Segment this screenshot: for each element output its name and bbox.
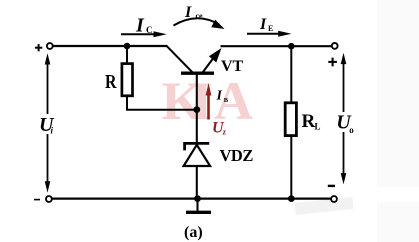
svg-text:I: I [135,15,145,37]
wire R top lead [126,46,128,64]
current arrow IC [121,33,155,35]
svg-text:E: E [268,24,273,33]
wire RL top lead [290,46,292,103]
terminal - input (bottom-left) [46,196,52,202]
current arrow ICE (curved) [174,18,220,25]
svg-text:R: R [105,72,117,93]
node junction top-right (wire to RL) [288,43,295,50]
svg-text:o: o [349,125,354,135]
wire top-right segment [221,45,333,47]
terminal - output (bottom-right) [331,196,337,202]
svg-text:B: B [224,97,229,104]
svg-text:I: I [259,16,267,33]
current arrow IB (red) [207,94,210,120]
svg-text:I: I [216,89,223,104]
svg-text:(a): (a) [184,224,203,241]
voltage arrow Uo [343,60,345,178]
transistor VT [167,46,244,75]
collector lead [167,46,192,72]
svg-text:C: C [146,25,153,35]
current arrow IE [247,33,280,35]
resistor R [122,64,133,96]
ground [196,199,198,211]
node junction bottom (zener/ground) [194,195,201,202]
wire zener to bottom [196,166,198,199]
cathode bar with bent tip [185,143,210,150]
svg-text:VDZ: VDZ [220,146,254,165]
svg-text:ce: ce [196,12,204,21]
wire base vertical [196,74,198,142]
svg-text:L: L [315,122,321,132]
voltage arrow Ui [47,60,49,186]
terminal + input (top-left) [47,43,53,49]
wire bottom [52,198,331,200]
emitter lead with arrow [203,55,216,73]
zener diode VDZ [184,143,254,166]
svg-text:z: z [223,128,227,137]
node junction base [193,106,200,113]
node junction top-left (wire to R) [124,43,131,50]
wire R bottom lead to base node [127,96,194,110]
svg-text:VT: VT [221,58,244,75]
node junction bottom-right (RL) [288,195,295,202]
resistor RL [285,103,296,136]
base bar [181,71,214,74]
wire top-left segment [53,45,168,47]
anode triangle [184,145,211,166]
svg-text:R: R [302,111,316,132]
terminal + output (top-right) [332,43,338,49]
svg-text:I: I [184,4,192,21]
wire RL bottom lead [290,137,292,199]
